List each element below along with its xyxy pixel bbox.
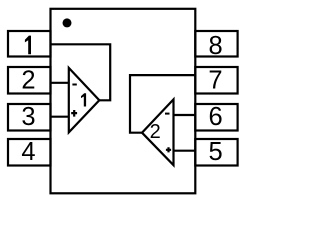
pin 4 box [8, 139, 51, 166]
svg-text:4: 4 [21, 138, 35, 166]
op-amp 1 inverting input minus sign [72, 84, 76, 86]
svg-text:2: 2 [150, 121, 161, 143]
svg-text:8: 8 [209, 32, 223, 60]
svg-text:3: 3 [21, 103, 35, 131]
IC body U1 (8-pin package outline) [51, 9, 196, 194]
pin 6 box [195, 104, 237, 131]
pin 3 box [8, 104, 51, 131]
pin 7 box [195, 67, 237, 94]
pin 8 box [195, 31, 237, 57]
op-amp 1 non-inverting input plus sign [71, 110, 77, 117]
wire pin2 to op-amp1 inverting input [51, 82, 69, 84]
pin 2 box [8, 67, 51, 94]
op-amp 1 triangle [69, 68, 100, 132]
op-amp 2 inverting input minus sign [165, 113, 170, 115]
op-amp 1 number label [81, 93, 86, 106]
pin-1 indicator dot [63, 18, 72, 27]
wire pin3 to op-amp1 non-inverting input [51, 116, 69, 118]
wire op-amp2 output to pin7 (feedback loop) [130, 75, 195, 133]
pin 5 box [195, 139, 237, 166]
wire op-amp1 output to pin1 (feedback loop) [51, 44, 111, 100]
svg-text:2: 2 [21, 66, 35, 94]
svg-text:5: 5 [209, 138, 223, 166]
pin 1 label [25, 36, 31, 55]
svg-text:6: 6 [209, 103, 223, 131]
svg-text:7: 7 [208, 67, 222, 95]
pin 1 box [8, 31, 51, 57]
wire op-amp2 non-inverting input to pin5 [174, 150, 196, 152]
op-amp 2 triangle [142, 99, 174, 165]
wire op-amp2 inverting input to pin6 [174, 114, 196, 116]
op-amp 2 non-inverting input plus sign [166, 147, 171, 152]
